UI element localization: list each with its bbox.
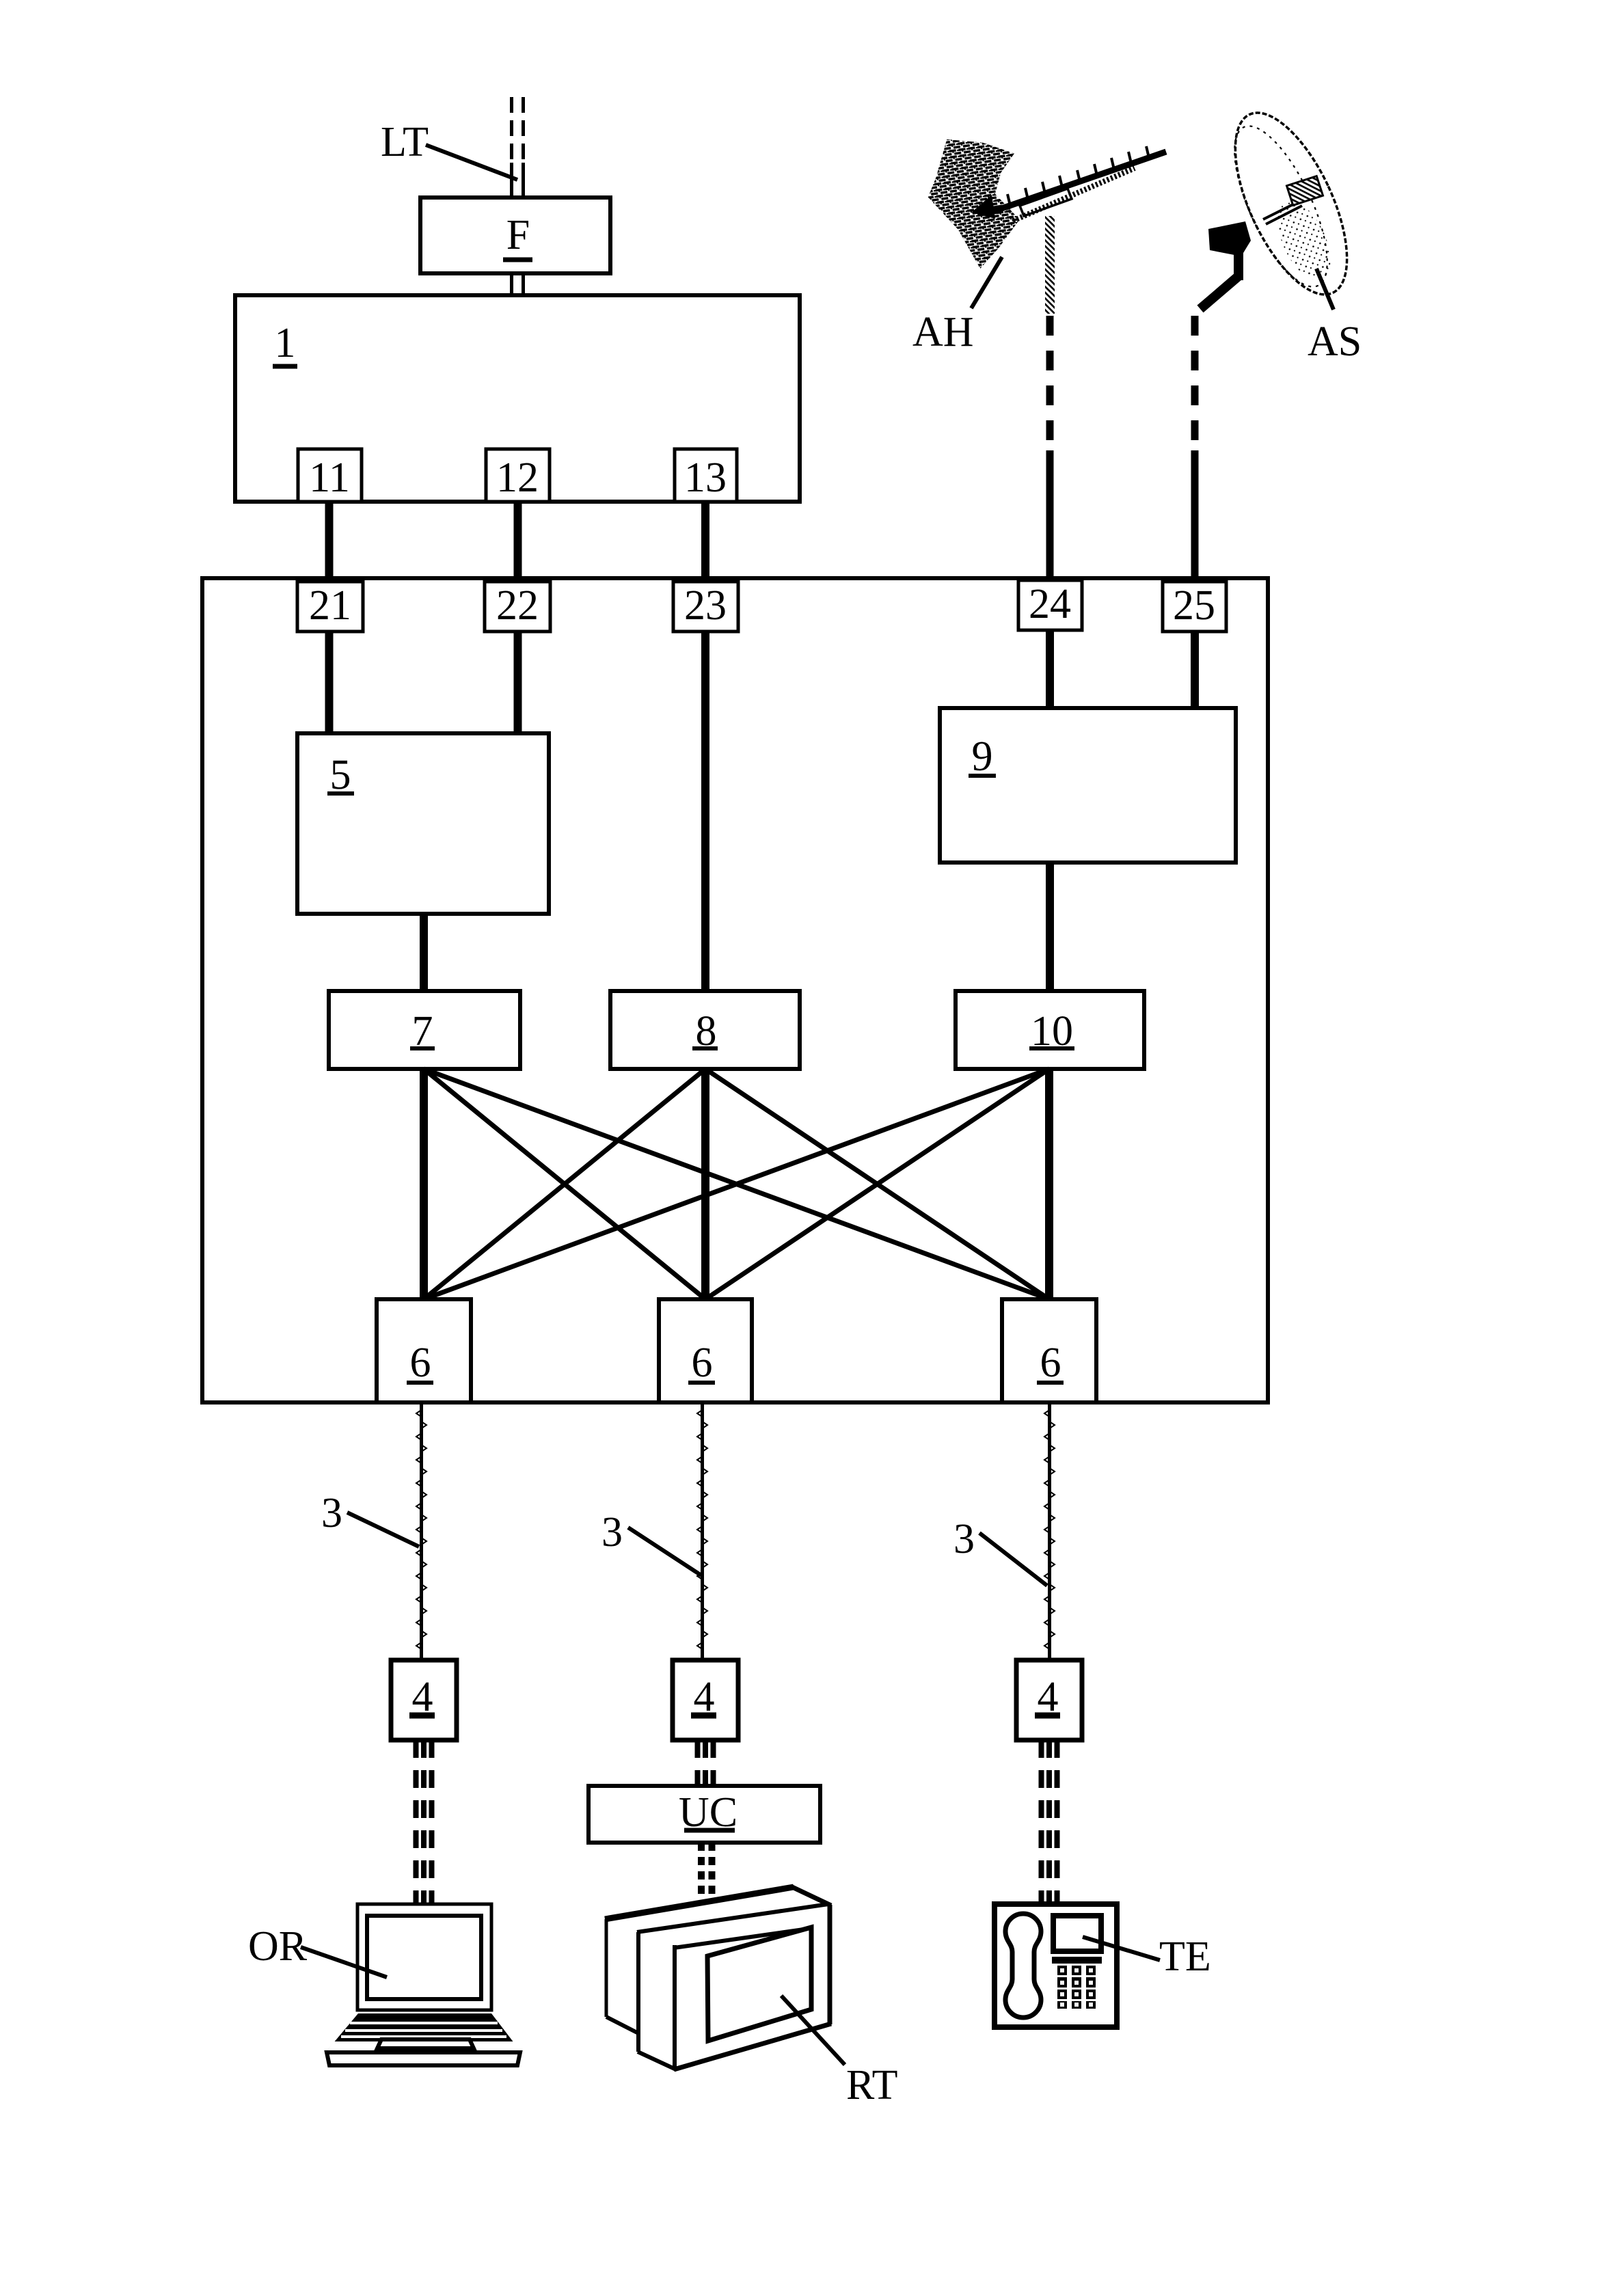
svg-text:5: 5 bbox=[330, 752, 351, 798]
wire AS dashed drop to 25 bbox=[1191, 316, 1199, 581]
label 3 (right) bbox=[953, 1516, 1047, 1586]
label AH bbox=[912, 257, 1002, 355]
svg-text:RT: RT bbox=[846, 2062, 898, 2108]
port box 12 bbox=[486, 449, 550, 502]
label LT bbox=[381, 119, 517, 180]
svg-text:6: 6 bbox=[410, 1340, 431, 1386]
wire 5 to 7 bbox=[420, 914, 428, 991]
wire 8 to 6 right bbox=[705, 1069, 1049, 1299]
wire 11 to 21 bbox=[325, 502, 334, 582]
wire F to box 1 (double line) bbox=[512, 273, 524, 295]
wire 21 to 5 bbox=[325, 632, 334, 733]
wire 22 to 5 bbox=[514, 632, 522, 733]
svg-text:3: 3 bbox=[953, 1516, 975, 1562]
wire 10 to 6 right bbox=[1045, 1069, 1053, 1299]
outer enclosure box (distribution unit) bbox=[202, 578, 1268, 1402]
svg-text:TE: TE bbox=[1159, 1933, 1211, 1980]
svg-text:OR: OR bbox=[248, 1923, 308, 1970]
svg-text:6: 6 bbox=[692, 1340, 713, 1386]
svg-text:21: 21 bbox=[309, 582, 351, 629]
port box 11 bbox=[298, 449, 362, 502]
wire 10 to 6 middle bbox=[705, 1069, 1049, 1299]
device RT : television set bbox=[605, 1887, 831, 2069]
svg-text:LT: LT bbox=[381, 119, 429, 165]
svg-text:AS: AS bbox=[1308, 318, 1362, 365]
svg-text:13: 13 bbox=[684, 454, 727, 501]
wire AH dashed drop to 24 bbox=[1046, 316, 1054, 581]
label 3 (middle) bbox=[601, 1509, 701, 1575]
wire 8 to 6 left bbox=[424, 1069, 705, 1299]
svg-text:23: 23 bbox=[684, 582, 727, 629]
port box 22 bbox=[485, 582, 550, 632]
label AS bbox=[1308, 269, 1362, 365]
box 8 bbox=[610, 991, 800, 1069]
box F (network termination) bbox=[420, 198, 610, 273]
port box 13 bbox=[675, 449, 737, 502]
outlet box 6 (middle) bbox=[659, 1299, 752, 1402]
wire 12 to 22 bbox=[514, 502, 522, 582]
wire 24 to 9 bbox=[1046, 630, 1054, 708]
svg-text:6: 6 bbox=[1040, 1340, 1061, 1386]
wire 25 to 9 bbox=[1191, 632, 1199, 708]
svg-text:22: 22 bbox=[496, 582, 539, 629]
svg-text:25: 25 bbox=[1173, 582, 1215, 629]
adapter box 4 (middle) bbox=[673, 1660, 738, 1740]
outlet box 6 (right) bbox=[1002, 1299, 1096, 1402]
box 1 (access multiplexer) bbox=[235, 295, 800, 502]
svg-text:9: 9 bbox=[972, 733, 993, 780]
wire 9 to 10 bbox=[1046, 863, 1054, 991]
wire 7 to 6 middle bbox=[424, 1069, 705, 1299]
node LT : incoming telecom line (dashed double drop) bbox=[512, 97, 524, 199]
outlet box 6 (left) bbox=[377, 1299, 471, 1402]
wire 3 (twisted drop cable right) bbox=[1044, 1402, 1055, 1660]
label OR bbox=[248, 1923, 387, 1977]
svg-text:12: 12 bbox=[496, 454, 539, 501]
wire 10 to 6 left bbox=[424, 1069, 1049, 1299]
port box 25 bbox=[1163, 582, 1226, 632]
box 9 (tuner) bbox=[940, 708, 1236, 863]
adapter box 4 (right) bbox=[1016, 1660, 1082, 1740]
label 3 (left) bbox=[321, 1490, 419, 1547]
adapter box 4 (left) bbox=[391, 1660, 457, 1740]
antenna AS (satellite dish) bbox=[1200, 97, 1370, 310]
port box 21 bbox=[297, 582, 363, 632]
wire 23 to 8 bbox=[701, 632, 709, 991]
device OR : laptop computer bbox=[326, 1904, 521, 2065]
box UC (set-top unit) bbox=[588, 1786, 820, 1843]
label TE bbox=[1083, 1933, 1211, 1980]
box 7 bbox=[329, 991, 520, 1069]
svg-text:F: F bbox=[506, 212, 530, 258]
wire 3 (twisted drop cable middle) bbox=[697, 1402, 707, 1660]
wire 4 to phone (triple dashed) bbox=[1042, 1740, 1057, 1904]
svg-text:11: 11 bbox=[309, 454, 350, 501]
wire 8 to 6 middle bbox=[701, 1069, 709, 1299]
wire 4 to UC (triple dashed) bbox=[698, 1740, 714, 1786]
port box 23 bbox=[673, 582, 738, 632]
label RT bbox=[781, 1996, 898, 2108]
svg-text:3: 3 bbox=[601, 1509, 623, 1556]
antenna AH (terrestrial yagi with hatched wave arrow) bbox=[921, 131, 1166, 314]
wire 4 to laptop (triple dashed) bbox=[416, 1740, 432, 1904]
box 10 bbox=[956, 991, 1144, 1069]
box 5 (xDSL modem) bbox=[297, 733, 549, 914]
svg-text:AH: AH bbox=[912, 309, 974, 355]
wire 3 (twisted drop cable left) bbox=[416, 1402, 427, 1660]
wire UC to TV (dotted double) bbox=[701, 1843, 712, 1899]
svg-text:3: 3 bbox=[321, 1490, 342, 1536]
wire 7 to 6 right bbox=[424, 1069, 1049, 1299]
wire 13 to 23 bbox=[701, 502, 709, 582]
wire 7 to 6 left bbox=[420, 1069, 428, 1299]
device TE : telephone bbox=[994, 1904, 1117, 2027]
svg-text:1: 1 bbox=[275, 320, 296, 366]
svg-text:24: 24 bbox=[1029, 581, 1071, 627]
port box 24 bbox=[1018, 580, 1082, 630]
